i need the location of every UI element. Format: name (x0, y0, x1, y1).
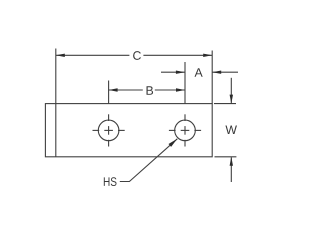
svg-text:W: W (225, 123, 237, 137)
dimension A line (161, 71, 238, 73)
A left arrowhead (176, 71, 185, 74)
plate outline (45, 104, 212, 157)
W top arrowhead (230, 95, 233, 104)
dimension W line (230, 78, 232, 182)
svg-text:A: A (195, 66, 204, 80)
C right arrowhead (203, 54, 212, 57)
svg-text:C: C (132, 49, 141, 63)
HS leader line (120, 139, 178, 182)
C left arrowhead (56, 54, 65, 57)
W bottom extension line (215, 156, 237, 158)
W bottom arrowhead (230, 157, 233, 166)
HS leader arrowhead (168, 139, 177, 147)
W top extension line (214, 103, 236, 105)
hole 1 circle (98, 120, 119, 141)
A right arrowhead (212, 71, 221, 74)
svg-text:HS: HS (103, 175, 117, 189)
B left arrowhead (109, 88, 118, 91)
dimension B line (109, 89, 185, 91)
dimension C line (56, 54, 212, 56)
dimension A/B extension line from hole 2 (184, 62, 186, 104)
svg-text:B: B (146, 84, 154, 98)
hole 2 center mark (169, 114, 201, 146)
C right extension line (plate right edge extended) (211, 51, 213, 104)
plate tab line / C left extension line (55, 49, 57, 157)
hole 1 center mark (93, 114, 125, 146)
B right arrowhead (176, 88, 185, 91)
hole 2 circle (HS hole) (175, 120, 196, 141)
dimension B extension line from hole 1 (108, 81, 110, 104)
